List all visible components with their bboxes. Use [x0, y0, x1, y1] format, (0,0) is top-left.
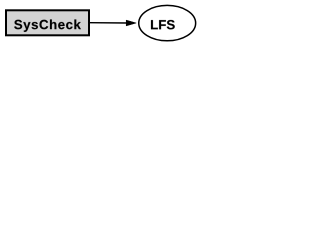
arrowhead — [126, 20, 136, 26]
label LFS — [151, 20, 175, 29]
label SysCheck — [14, 19, 81, 31]
background — [0, 0, 200, 48]
node SysCheck (box) — [6, 10, 89, 35]
node LFS (ellipse) — [139, 5, 196, 40]
wire edge SysCheck to LFS — [90, 22, 127, 24]
